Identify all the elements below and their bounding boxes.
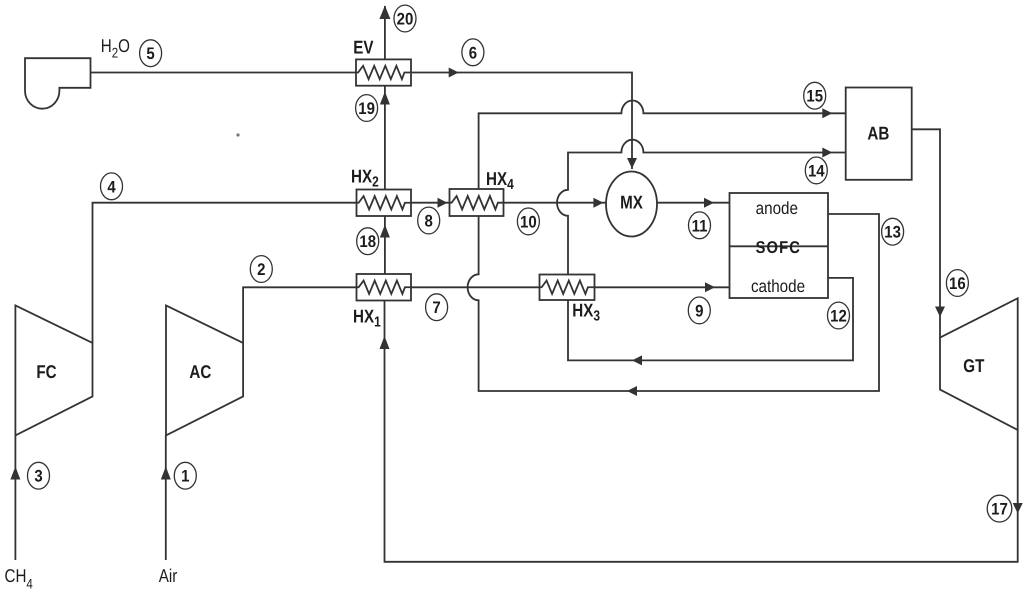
svg-text:13: 13	[884, 223, 901, 242]
wire stream 9 (HX3 to cathode)	[595, 286, 730, 288]
wire stream 17 (GT exhaust to HX1 hot side)	[385, 301, 1018, 562]
wire stream 3 (CH4 feed)	[14, 435, 16, 560]
svg-text:MX: MX	[620, 193, 643, 213]
svg-text:8: 8	[425, 212, 433, 231]
heat exchanger HX1	[357, 274, 412, 301]
svg-text:AC: AC	[189, 363, 211, 383]
wire stream 4 (FC outlet to HX2)	[93, 203, 357, 343]
svg-text:16: 16	[949, 274, 966, 293]
node stream circle 15	[804, 82, 826, 109]
node stream circle 5	[140, 40, 162, 67]
svg-text:Air: Air	[159, 566, 178, 586]
node stream circle 19	[356, 95, 378, 122]
node stream circle 12	[828, 302, 850, 329]
wire stream 8 (HX2 to HX4)	[411, 202, 450, 204]
wire stream 12 (cathode outlet to HX3 hot side)	[568, 278, 853, 361]
node stream circle 9	[688, 297, 710, 324]
heat exchanger EV	[356, 59, 411, 85]
svg-text:SOFC: SOFC	[756, 239, 801, 258]
compressor AC (air compressor)	[166, 305, 243, 435]
svg-text:EV: EV	[353, 38, 373, 58]
svg-text:17: 17	[991, 500, 1008, 519]
node stream circle 13	[882, 218, 904, 245]
node stream circle 20	[394, 5, 416, 32]
node stream circle 6	[462, 39, 484, 66]
wire stream 1 (air feed)	[165, 435, 167, 560]
wire stream 18 (HX1 to HX2)	[384, 216, 386, 274]
turbine GT	[940, 298, 1018, 430]
node stream circle 1	[174, 462, 196, 489]
svg-text:3: 3	[34, 467, 42, 486]
wire stream 6 (EV to MX)	[412, 73, 632, 170]
wire stream 14 (HX3 hot outlet to AB)	[557, 140, 846, 275]
node stream circle 16	[946, 270, 968, 297]
afterburner AB	[846, 88, 912, 180]
node stream circle 10	[517, 208, 539, 235]
heat exchanger HX4	[450, 189, 504, 216]
wire stream 19 (HX2 to EV)	[384, 85, 386, 190]
heat exchanger HX3	[540, 275, 595, 301]
wire stream 13 (anode outlet to HX4 hot side)	[468, 214, 879, 391]
svg-text:11: 11	[692, 217, 708, 236]
pump P1 (water feed pump)	[25, 58, 91, 109]
svg-text:1: 1	[181, 467, 189, 486]
svg-text:20: 20	[397, 10, 414, 29]
svg-text:14: 14	[808, 162, 825, 181]
heat exchanger HX2	[357, 190, 412, 217]
wire stream 20 (EV steam outlet up)	[384, 6, 386, 59]
svg-text:FC: FC	[36, 363, 56, 383]
node stream circle 17	[987, 495, 1012, 522]
svg-text:cathode: cathode	[751, 278, 805, 297]
node stream circle 18	[357, 228, 379, 255]
fuel cell SOFC	[730, 193, 829, 298]
svg-text:15: 15	[806, 87, 823, 106]
wire stream 15 (HX4 hot outlet to AB)	[479, 101, 846, 190]
compressor FC (fuel compressor)	[15, 305, 92, 435]
node stream circle 2	[250, 256, 272, 283]
node stream circle 4	[101, 173, 123, 200]
wire stream 10 (HX4 to MX)	[504, 202, 606, 204]
wire stream 7 (HX1 to HX3)	[411, 286, 540, 288]
wire stream 16 (AB to GT)	[912, 129, 940, 337]
node stream circle 3	[28, 462, 50, 489]
node stream circle 8	[418, 207, 440, 234]
mixer MX	[606, 172, 657, 237]
svg-text:9: 9	[695, 302, 703, 321]
svg-text:12: 12	[830, 307, 847, 326]
node stream circle 7	[426, 294, 448, 321]
svg-text:4: 4	[107, 178, 116, 197]
svg-text:anode: anode	[756, 200, 798, 219]
svg-text:6: 6	[469, 44, 477, 63]
node stream circle 14	[805, 157, 827, 184]
svg-text:19: 19	[358, 99, 375, 118]
svg-text:AB: AB	[867, 124, 889, 144]
svg-text:18: 18	[359, 233, 376, 252]
svg-text:7: 7	[432, 299, 440, 318]
wire stream 2 (AC outlet to HX1)	[243, 287, 356, 343]
node stream circle 11	[689, 212, 711, 239]
svg-text:10: 10	[520, 213, 537, 232]
wire stream 5 (pump to EV)	[91, 72, 357, 74]
svg-text:GT: GT	[963, 356, 984, 376]
svg-text:5: 5	[146, 45, 154, 64]
svg-text:2: 2	[257, 260, 265, 279]
wire stream 11 (MX to anode)	[657, 202, 730, 204]
